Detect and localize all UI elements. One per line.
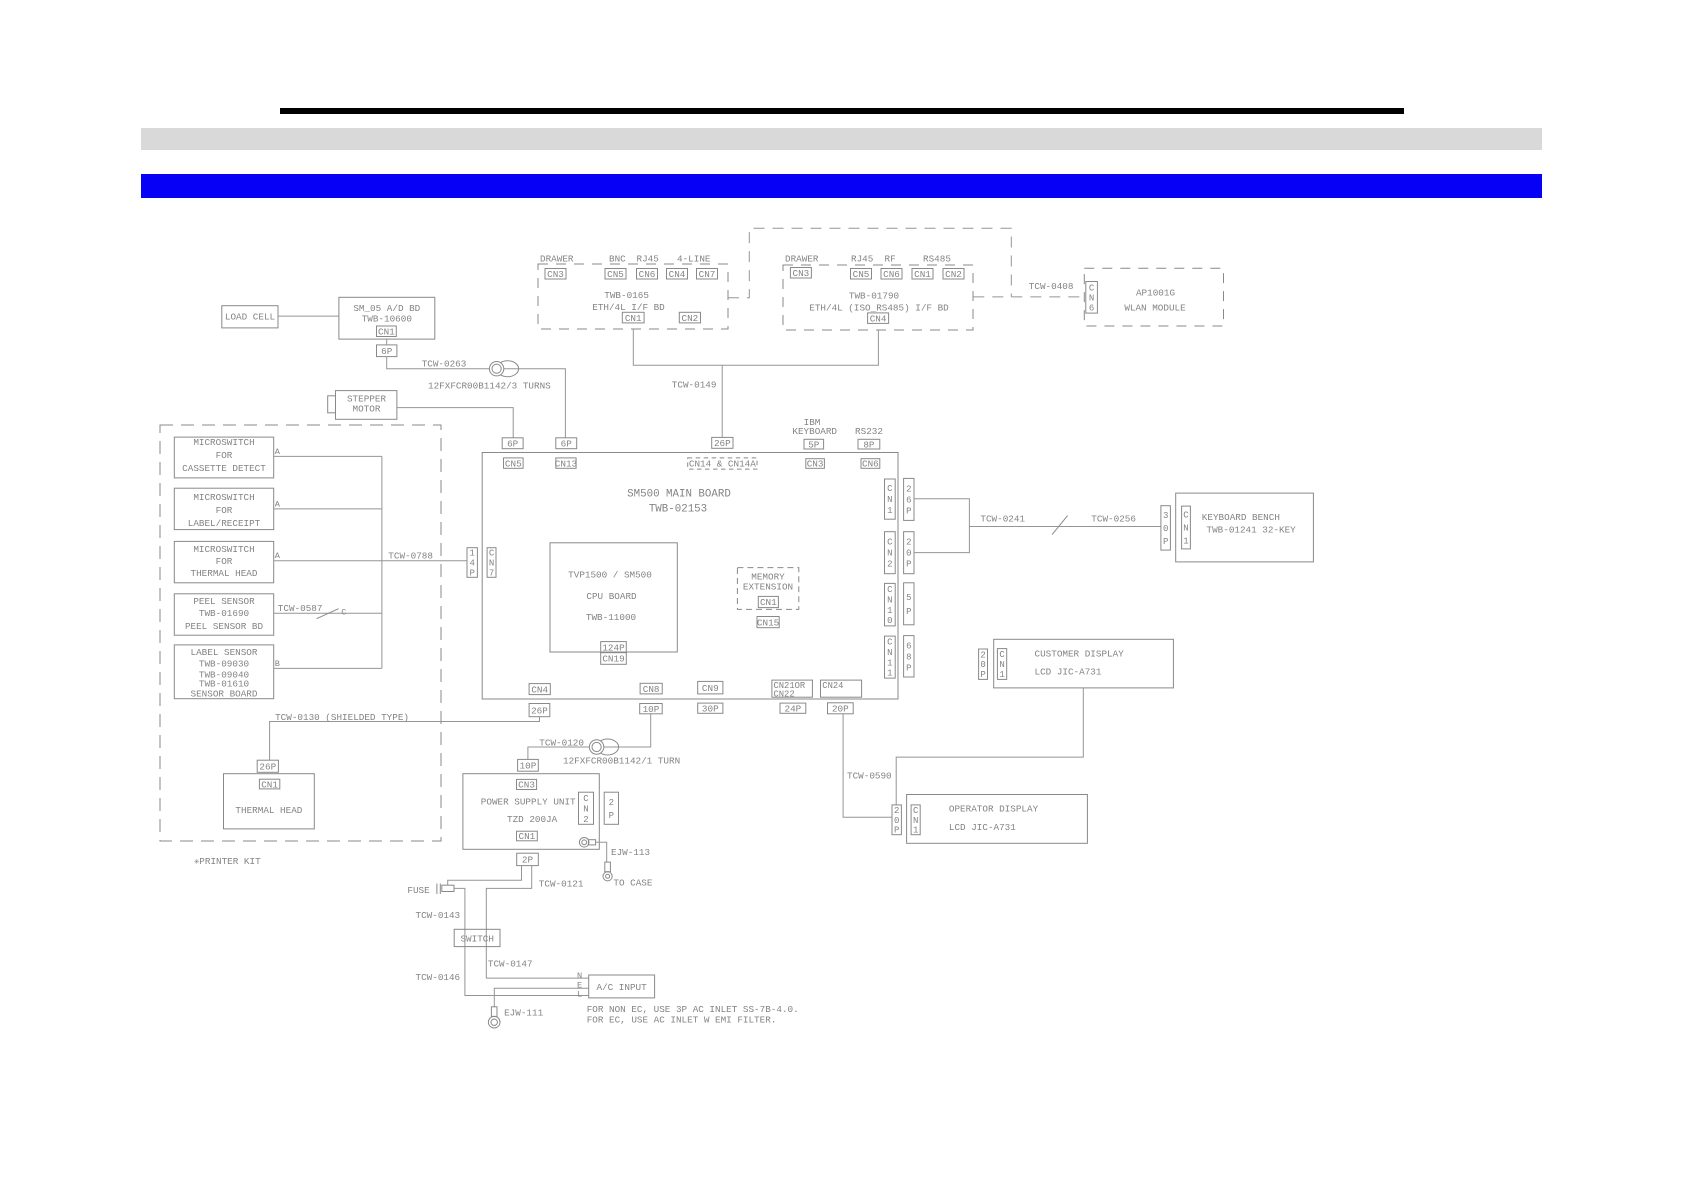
svg-text:2: 2 (609, 798, 614, 808)
earth lug EJW-111 (491, 1007, 497, 1017)
svg-text:PEEL SENSOR BD: PEEL SENSOR BD (185, 621, 264, 632)
svg-text:FOR: FOR (216, 505, 233, 516)
svg-text:6: 6 (906, 641, 911, 651)
svg-text:CN14 & CN14A: CN14 & CN14A (689, 459, 756, 470)
svg-text:1: 1 (469, 549, 474, 559)
svg-text:ETH/4L (ISO_RS485) I/F BD: ETH/4L (ISO_RS485) I/F BD (809, 303, 949, 314)
svg-text:C: C (583, 794, 589, 804)
svg-text:CN1: CN1 (519, 831, 536, 842)
svg-text:N: N (999, 660, 1004, 670)
block MICROSWITCH FOR THERMAL HEAD (174, 541, 273, 582)
block STEPPER MOTOR (336, 391, 397, 420)
svg-text:TWB-01241 32-KEY: TWB-01241 32-KEY (1207, 525, 1297, 536)
connector CN1 (TWB-01790 RS485) (912, 269, 933, 280)
wire TCW-0263 A/D 6P to main board CN13 (387, 357, 566, 438)
svg-text:C: C (1183, 511, 1189, 521)
svg-text:C: C (887, 484, 893, 494)
svg-text:✳PRINTER KIT: ✳PRINTER KIT (194, 856, 261, 867)
svg-text:FUSE: FUSE (407, 885, 430, 896)
svg-text:12FXFCR00B1142/1 TURN: 12FXFCR00B1142/1 TURN (563, 756, 680, 767)
connector 26P (keyboard bench cable) (904, 478, 914, 520)
connector 5P (IBM keyboard) (804, 439, 824, 449)
connector CN1 (keyboard bench) (1182, 506, 1191, 549)
svg-text:FOR: FOR (216, 556, 233, 567)
connector CN1 (thermal head) (259, 779, 279, 789)
connector CN1 (PSU) (517, 831, 538, 841)
wire TCW-0130 26P to thermal head (270, 717, 540, 761)
svg-text:TCW-0788: TCW-0788 (388, 551, 433, 562)
connector CN2 (main board right) (885, 532, 896, 574)
svg-text:10P: 10P (520, 761, 537, 772)
svg-text:26P: 26P (531, 705, 548, 716)
svg-text:P: P (609, 811, 614, 821)
wire cassette detect to harness bus (274, 455, 382, 457)
svg-text:TCW-0143: TCW-0143 (416, 910, 461, 921)
svg-text:P: P (894, 826, 899, 836)
header rule (280, 108, 1404, 114)
svg-text:LABEL/RECEIPT: LABEL/RECEIPT (188, 518, 261, 529)
connector 6P (A/D, main board) (556, 438, 577, 449)
svg-text:CN13: CN13 (555, 458, 577, 469)
wire LOAD CELL to A/D board (278, 315, 339, 317)
svg-text:SM500 MAIN BOARD: SM500 MAIN BOARD (627, 489, 731, 501)
wire TCW-0149 drop to 26P (721, 365, 723, 437)
svg-text:6P: 6P (561, 438, 573, 449)
svg-text:0: 0 (1163, 524, 1168, 534)
connector 2P (PSU AC input) (517, 853, 539, 865)
svg-text:P: P (906, 506, 911, 516)
svg-text:RJ45: RJ45 (637, 254, 659, 265)
connector CN6 (TWB-0165 RJ45) (637, 269, 658, 280)
svg-text:DRAWER: DRAWER (540, 254, 574, 265)
block MICROSWITCH FOR LABEL/RECEIPT (174, 488, 273, 529)
svg-text:30P: 30P (702, 703, 719, 714)
svg-text:CN1: CN1 (760, 597, 777, 608)
svg-text:N: N (583, 804, 588, 814)
svg-text:RS485: RS485 (923, 254, 951, 265)
connector CN1 (TWB-0165) (622, 312, 644, 323)
svg-text:CN1: CN1 (625, 313, 642, 324)
wire TCW-0121 2P to AC input N (486, 866, 588, 979)
svg-text:EXTENSION: EXTENSION (743, 582, 793, 593)
svg-text:0: 0 (980, 660, 985, 670)
wire TCW-0143/0146 fuse to switch to AC input L (454, 888, 589, 995)
svg-text:C: C (489, 549, 495, 559)
connector 6P (A/D board) (377, 345, 397, 357)
svg-text:TCW-0587: TCW-0587 (278, 603, 323, 614)
svg-text:TWB-02153: TWB-02153 (649, 504, 707, 516)
svg-text:CN19: CN19 (602, 654, 624, 665)
svg-text:P: P (980, 670, 985, 680)
wire harness bus vertical (381, 456, 383, 668)
svg-text:FOR: FOR (216, 450, 233, 461)
connector CN3 (TWB-01790 drawer) (790, 268, 811, 279)
svg-text:FOR EC, USE AC INLET W EMI FIL: FOR EC, USE AC INLET W EMI FILTER. (587, 1014, 777, 1025)
svg-text:CN7: CN7 (699, 269, 716, 280)
connector CN3 (PSU) (517, 779, 537, 789)
connector 30P (main board bottom) (698, 703, 723, 713)
connector CN1 (operator display) (911, 805, 920, 835)
svg-text:6: 6 (906, 495, 911, 505)
svg-text:KEYBOARD: KEYBOARD (792, 426, 837, 437)
svg-text:CN9: CN9 (702, 683, 719, 694)
svg-text:CN6: CN6 (639, 269, 656, 280)
wire CN1 to 6P (386, 339, 388, 345)
svg-text:N: N (887, 648, 892, 658)
svg-text:1: 1 (913, 826, 918, 836)
svg-text:1: 1 (887, 658, 892, 668)
connector 30P (keyboard bench) (1161, 506, 1171, 550)
connector CN6 (WLAN module) (1086, 282, 1098, 314)
svg-text:CN6: CN6 (883, 269, 900, 280)
connector 20P (keyboard bench cable) (904, 532, 914, 574)
svg-text:CN3: CN3 (518, 780, 535, 791)
connector CN10 (main board right) (885, 583, 896, 626)
svg-text:4-LINE: 4-LINE (677, 254, 711, 265)
svg-text:2: 2 (906, 484, 911, 494)
svg-text:P: P (906, 560, 911, 570)
connector 2P (PSU aux) (604, 792, 618, 824)
svg-text:MICROSWITCH: MICROSWITCH (193, 437, 254, 448)
connector 8P (RS232) (858, 439, 880, 449)
svg-text:2: 2 (980, 650, 985, 660)
svg-text:EJW-111: EJW-111 (504, 1008, 543, 1019)
wire TCW-0590 main board 20P to operator display (843, 714, 892, 817)
svg-text:C: C (1089, 283, 1095, 293)
connector CN4 (TWB-01790) (868, 313, 889, 324)
svg-text:TCW-0121: TCW-0121 (539, 879, 584, 890)
svg-text:MICROSWITCH: MICROSWITCH (193, 492, 254, 503)
connector CN2 (PSU) (579, 792, 594, 824)
ferrite bead on TCW-0263 (497, 361, 519, 377)
svg-text:C: C (887, 538, 893, 548)
svg-text:TWB-10600: TWB-10600 (362, 314, 412, 325)
svg-text:CN24: CN24 (822, 681, 843, 691)
dashed group box PRINTER KIT (160, 425, 441, 841)
svg-text:1: 1 (887, 606, 892, 616)
svg-text:CN4: CN4 (669, 269, 686, 280)
svg-text:6P: 6P (381, 346, 393, 357)
connector CN3 (main board keyboard) (806, 459, 825, 469)
connector CN7 (main board left) (487, 548, 496, 578)
svg-text:CASSETTE DETECT: CASSETTE DETECT (182, 463, 266, 474)
svg-text:TCW-0149: TCW-0149 (672, 380, 717, 391)
connector 14P (printer harness) (467, 548, 477, 578)
svg-text:TCW-0130 (SHIELDED TYPE): TCW-0130 (SHIELDED TYPE) (275, 712, 409, 723)
connector 6P (stepper, main board) (502, 438, 523, 449)
svg-text:MICROSWITCH: MICROSWITCH (193, 544, 254, 555)
connector CN24 (main board bottom) (821, 680, 862, 697)
connector 124P (CPU board) (601, 642, 627, 653)
svg-text:RJ45: RJ45 (851, 254, 873, 265)
svg-text:CN1: CN1 (261, 779, 278, 790)
svg-text:TWB-11000: TWB-11000 (586, 612, 636, 623)
block TWB-01790 ETH/4L (ISO_RS485) I/F BD (783, 265, 973, 330)
svg-text:CN3: CN3 (547, 269, 564, 280)
svg-text:P: P (906, 663, 911, 673)
slash mark on TCW-0587 (317, 609, 339, 619)
svg-text:CUSTOMER DISPLAY: CUSTOMER DISPLAY (1035, 649, 1125, 660)
svg-text:TCW-0241: TCW-0241 (980, 514, 1025, 525)
connector CN19 (CPU board) (601, 653, 627, 665)
svg-text:P: P (906, 607, 911, 617)
svg-text:A: A (275, 551, 281, 561)
connector 24P (main board bottom) (780, 703, 806, 713)
block PEEL SENSOR TWB-01690 (174, 594, 273, 635)
svg-text:5P: 5P (808, 439, 820, 450)
svg-text:CN6: CN6 (862, 459, 879, 470)
block POWER SUPPLY UNIT TZD 200JA (463, 774, 599, 850)
connector CN4 (TWB-0165) (667, 269, 688, 280)
block MICROSWITCH FOR CASSETTE DETECT (174, 437, 273, 478)
svg-text:26P: 26P (714, 438, 731, 449)
svg-text:TCW-0590: TCW-0590 (847, 771, 892, 782)
svg-text:CN3: CN3 (807, 459, 824, 470)
wire TCW-0149 trunk to I/F boards (633, 329, 878, 365)
wire stepper motor to main board CN5 6P (397, 408, 513, 438)
wire earth to AC input E (494, 988, 588, 1007)
svg-text:N: N (887, 549, 892, 559)
wire label/receipt to harness bus (274, 508, 382, 510)
connector 10P (PSU) (518, 759, 539, 771)
svg-text:6P: 6P (507, 438, 519, 449)
svg-text:TWB-01790: TWB-01790 (849, 291, 899, 302)
svg-text:5: 5 (906, 593, 911, 603)
ferrite bead on TCW-0120 (597, 739, 619, 755)
svg-text:LABEL SENSOR: LABEL SENSOR (191, 647, 258, 658)
svg-text:TVP1500 / SM500: TVP1500 / SM500 (568, 570, 652, 581)
svg-text:2P: 2P (522, 855, 534, 866)
fuse (436, 884, 438, 895)
svg-text:C: C (341, 607, 346, 617)
svg-text:0: 0 (906, 549, 911, 559)
svg-text:1: 1 (887, 506, 892, 516)
svg-text:TWB-09030: TWB-09030 (199, 659, 249, 670)
svg-text:N: N (887, 495, 892, 505)
svg-text:TCW-0146: TCW-0146 (416, 972, 461, 983)
svg-text:8: 8 (906, 652, 911, 662)
svg-text:26P: 26P (259, 761, 276, 772)
svg-text:2: 2 (583, 815, 588, 825)
svg-text:CN2: CN2 (682, 313, 699, 324)
svg-text:N: N (1183, 524, 1188, 534)
svg-text:2: 2 (887, 560, 892, 570)
svg-text:0: 0 (894, 816, 899, 826)
svg-text:THERMAL HEAD: THERMAL HEAD (235, 805, 302, 816)
connector 68P (main board right) (904, 636, 914, 677)
connector CN5 (TWB-0165 BNC) (605, 269, 626, 280)
svg-text:2: 2 (894, 806, 899, 816)
svg-text:A: A (275, 447, 281, 457)
connector CN7 (TWB-0165 4-line) (697, 269, 718, 280)
connector 26P (thermal head) (257, 760, 278, 772)
svg-text:6: 6 (1089, 303, 1094, 313)
svg-text:WLAN MODULE: WLAN MODULE (1124, 303, 1186, 314)
svg-text:12FXFCR00B1142/3 TURNS: 12FXFCR00B1142/3 TURNS (428, 381, 551, 392)
header gray band (141, 128, 1542, 150)
connector 5P (main board right) (904, 583, 914, 625)
svg-text:CN1: CN1 (914, 269, 931, 280)
svg-text:1: 1 (999, 670, 1004, 680)
svg-text:SWITCH: SWITCH (460, 933, 493, 944)
svg-text:CN5: CN5 (505, 458, 522, 469)
svg-text:TCW-0147: TCW-0147 (488, 959, 533, 970)
svg-text:C: C (887, 638, 893, 648)
wire TCW-0241 26P/20P to keyboard bench (914, 499, 969, 553)
svg-text:CPU BOARD: CPU BOARD (586, 591, 637, 602)
svg-text:CN4: CN4 (870, 313, 887, 324)
block KEYBOARD BENCH TWB-01241 32-KEY (1176, 493, 1314, 562)
svg-text:RF: RF (885, 254, 896, 265)
svg-text:CN5: CN5 (607, 269, 624, 280)
svg-text:LCD JIC-A731: LCD JIC-A731 (1035, 667, 1102, 678)
svg-text:BNC: BNC (609, 254, 626, 265)
slash mark on keyboard cable (1052, 516, 1068, 535)
wire peel sensor to harness bus (274, 612, 382, 614)
svg-text:TWB-01690: TWB-01690 (199, 608, 249, 619)
svg-text:2: 2 (906, 538, 911, 548)
block SM500 MAIN BOARD TWB-02153 (482, 453, 898, 700)
connector CN5 (main board) (504, 458, 524, 468)
dashed wire TWB-0165 to trunk (728, 228, 1011, 297)
connector CN2 (TWB-0165) (679, 312, 700, 323)
svg-text:CN4: CN4 (531, 684, 548, 695)
svg-text:KEYBOARD BENCH: KEYBOARD BENCH (1202, 512, 1280, 523)
connector 26P (TCW-0149, main board) (712, 437, 733, 448)
block AP1001G WLAN MODULE (1084, 268, 1223, 326)
svg-text:CN2: CN2 (945, 269, 962, 280)
svg-text:CN15: CN15 (757, 617, 779, 628)
case lug TO CASE (605, 862, 611, 872)
svg-text:MOTOR: MOTOR (353, 404, 381, 415)
svg-text:24P: 24P (785, 703, 802, 714)
connector 20P (operator display cable) (828, 703, 854, 714)
svg-text:POWER SUPPLY UNIT: POWER SUPPLY UNIT (481, 797, 576, 808)
connector CN14 & CN14A (main board) (688, 458, 757, 469)
svg-text:PEEL SENSOR: PEEL SENSOR (193, 596, 255, 607)
svg-text:CN3: CN3 (793, 268, 810, 279)
connector 20P (customer display) (979, 649, 988, 679)
svg-text:ETH/4L I/F BD: ETH/4L I/F BD (592, 302, 665, 313)
wire TCW-0120 PSU to main board 10P (528, 714, 651, 760)
svg-text:N: N (1089, 293, 1094, 303)
svg-text:1: 1 (887, 669, 892, 679)
svg-text:TCW-0256: TCW-0256 (1091, 514, 1136, 525)
svg-text:DRAWER: DRAWER (785, 254, 819, 265)
block MEMORY EXTENSION (737, 568, 798, 610)
svg-text:AP1001G: AP1001G (1136, 288, 1175, 299)
block CUSTOMER DISPLAY LCD JIC-A731 (994, 639, 1174, 688)
wire label sensor to harness bus (274, 667, 382, 669)
connector CN1 (A/D board) (377, 326, 397, 337)
svg-text:OPERATOR DISPLAY: OPERATOR DISPLAY (949, 804, 1039, 815)
connector CN8 (main board bottom) (640, 683, 662, 694)
svg-text:P: P (1163, 537, 1168, 547)
connector CN3 (TWB-0165 drawer) (545, 269, 566, 280)
connector CN6 (main board RS232) (861, 459, 880, 469)
svg-text:P: P (469, 568, 474, 578)
connector CN1 (main board right) (885, 479, 896, 519)
block LABEL SENSOR boards (174, 645, 273, 699)
svg-text:TCW-0263: TCW-0263 (422, 359, 467, 370)
svg-text:10P: 10P (643, 704, 660, 715)
svg-text:7: 7 (489, 568, 494, 578)
svg-text:N: N (887, 596, 892, 606)
connector CN4 (main board bottom) (529, 684, 550, 695)
svg-text:8P: 8P (863, 439, 875, 450)
block TWB-0165 ETH/4L I/F BD (538, 264, 728, 329)
svg-text:20P: 20P (832, 704, 849, 715)
connector CN9 (main board bottom) (698, 681, 723, 694)
svg-text:TO CASE: TO CASE (613, 878, 652, 889)
dashed wire TCW-0408 to WLAN module (973, 296, 1084, 298)
connector CN1 (customer display) (997, 649, 1006, 680)
svg-text:TCW-0120: TCW-0120 (539, 738, 584, 749)
block A/C INPUT (589, 975, 655, 998)
svg-text:LOAD CELL: LOAD CELL (225, 312, 275, 323)
block LOAD CELL (222, 306, 278, 328)
svg-text:124P: 124P (602, 642, 625, 653)
wire EJW-113 to case (596, 842, 607, 862)
svg-text:N: N (913, 816, 918, 826)
block SWITCH (454, 929, 500, 946)
connector 10P (power cable) (640, 704, 663, 714)
svg-text:C: C (999, 650, 1005, 660)
svg-text:RS232: RS232 (855, 426, 883, 437)
block TVP1500 / SM500 CPU BOARD TWB-11000 (550, 543, 677, 652)
wire customer display to operator display (896, 688, 1083, 805)
svg-text:3: 3 (1163, 511, 1168, 521)
connector CN1 (memory extension) (758, 596, 778, 607)
ground lug EJW-113 at PSU (579, 838, 589, 848)
wire TCW-0788 bus to 14P (382, 560, 467, 562)
svg-text:EJW-113: EJW-113 (611, 847, 650, 858)
header blue band (141, 174, 1542, 198)
svg-text:SENSOR BOARD: SENSOR BOARD (191, 689, 258, 700)
connector CN13 (main board) (556, 458, 576, 468)
svg-text:C: C (913, 806, 919, 816)
svg-text:TCW-0408: TCW-0408 (1029, 281, 1074, 292)
connector CN5 (TWB-01790 RJ45) (851, 269, 872, 280)
block THERMAL HEAD (224, 774, 315, 829)
svg-text:LCD JIC-A731: LCD JIC-A731 (949, 822, 1016, 833)
svg-text:SM_05 A/D BD: SM_05 A/D BD (353, 303, 420, 314)
connector CN6 (TWB-01790 RF) (881, 269, 902, 280)
svg-text:A/C INPUT: A/C INPUT (596, 982, 647, 993)
svg-text:L: L (577, 990, 582, 1000)
svg-text:CN22: CN22 (774, 689, 795, 699)
svg-text:CN5: CN5 (853, 269, 870, 280)
connector 20P (operator display) (892, 805, 901, 835)
svg-text:B: B (275, 659, 280, 669)
svg-text:A: A (275, 499, 281, 509)
svg-text:C: C (887, 585, 893, 595)
svg-text:CN1: CN1 (378, 326, 395, 337)
svg-text:TZD 200JA: TZD 200JA (507, 814, 558, 825)
connector CN15 (main board) (757, 617, 779, 628)
connector CN2 (TWB-01790 RS485) (943, 269, 964, 280)
block OPERATOR DISPLAY LCD JIC-A731 (907, 795, 1088, 844)
svg-text:CN8: CN8 (643, 684, 660, 695)
svg-text:TWB-0165: TWB-0165 (604, 290, 649, 301)
svg-text:THERMAL HEAD: THERMAL HEAD (191, 568, 258, 579)
block SM_05 A/D BD TWB-10600 (339, 297, 435, 339)
connector CN21OR CN22 (main board bottom) (772, 680, 813, 697)
wire 2P to fuse (448, 866, 522, 886)
connector 26P (thermal head cable) (529, 704, 550, 717)
svg-text:4: 4 (469, 559, 474, 569)
svg-text:N: N (489, 559, 494, 569)
